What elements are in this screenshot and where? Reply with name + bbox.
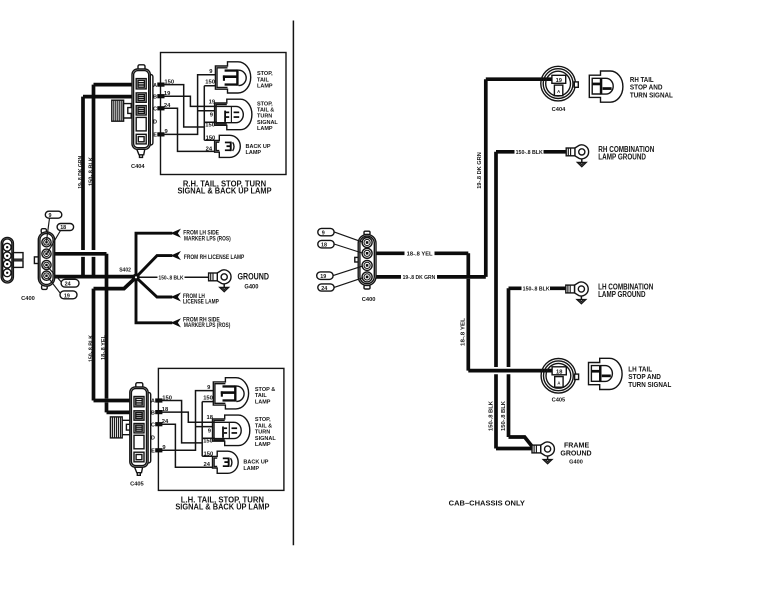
socket connector C405 (circle symbol) (541, 359, 578, 394)
svg-text:TURN SIGNAL: TURN SIGNAL (628, 380, 672, 389)
svg-text:SIGNAL: SIGNAL (257, 120, 278, 126)
svg-text:C400: C400 (21, 296, 35, 302)
svg-text:19-.8 DK GRN: 19-.8 DK GRN (477, 152, 483, 189)
socket connector C404 (circle symbol) (541, 66, 579, 101)
svg-text:B: B (153, 95, 157, 101)
callout oval 18 (right) (334, 244, 362, 253)
wire 18-.8 YEL (C400 pin 2 to C405 socket) (370, 253, 552, 370)
svg-text:150-.8 BLK: 150-.8 BLK (516, 150, 543, 156)
svg-text:C404: C404 (131, 164, 145, 170)
internal wire ckt 9 (161, 75, 216, 135)
stub FROM RH SIDE MARKER LPS (ROS) (136, 277, 172, 323)
svg-text:STOP,: STOP, (257, 101, 273, 107)
svg-text:G400: G400 (244, 284, 259, 290)
svg-text:C405: C405 (130, 482, 144, 488)
svg-text:19: 19 (209, 99, 216, 105)
svg-text:TURN SIGNAL: TURN SIGNAL (630, 91, 674, 100)
connector C405 (5-cavity, rear lamp harness LH) (130, 383, 151, 476)
svg-text:150: 150 (206, 136, 216, 142)
svg-text:CAB–CHASSIS ONLY: CAB–CHASSIS ONLY (449, 499, 525, 508)
wire C404 pin B lead (83, 95, 140, 99)
svg-text:19-.8 DK GRN: 19-.8 DK GRN (403, 275, 436, 281)
svg-text:G400: G400 (569, 459, 583, 465)
callout oval 18 (48, 231, 61, 253)
callout oval 24 (48, 267, 63, 283)
lamp stop/tail/turn (3 terminal) (215, 99, 252, 130)
lamp socket rear view RH (589, 71, 623, 102)
svg-text:24: 24 (65, 282, 71, 288)
svg-text:SIGNAL & BACK UP LAMP: SIGNAL & BACK UP LAMP (175, 503, 270, 512)
wire 150-.8 BLK LH combination ground down to frame ground (509, 288, 567, 447)
svg-text:MARKER LPS (ROS): MARKER LPS (ROS) (184, 236, 231, 242)
svg-text:LAMP: LAMP (246, 150, 262, 156)
svg-text:18: 18 (60, 225, 66, 231)
callout oval 19 (48, 277, 61, 294)
svg-text:150-.8 BLK: 150-.8 BLK (88, 157, 94, 186)
stub FROM RH LICENSE LAMP (136, 256, 172, 278)
lamp box outline (161, 53, 287, 175)
svg-text:C404: C404 (552, 107, 566, 113)
wire C404 pin A lead (94, 83, 140, 87)
svg-text:18-.8 YEL: 18-.8 YEL (407, 251, 434, 257)
stub FROM LH SIDE MARKER LPS (ROS) (136, 233, 172, 277)
lamp socket rear view LH (589, 358, 623, 389)
R.H. lamp box core (shared geometry) (153, 53, 286, 175)
wire 150-.8 BLK RH combination ground down to frame ground (496, 152, 566, 449)
svg-text:LAMP: LAMP (255, 399, 271, 405)
lamp back up (215, 135, 241, 157)
wire 19-.8 DK GRN (C400 pin 4 to C404 socket) (370, 79, 553, 277)
L.H. lamp box core (151, 368, 284, 490)
wire 150 BLK lower run (splice down to C405 pin A) (94, 277, 140, 400)
svg-text:GROUND: GROUND (238, 271, 270, 281)
svg-text:LAMP: LAMP (257, 83, 273, 89)
pin squares A,B,C,E (157, 83, 164, 87)
svg-text:STOP &: STOP & (255, 387, 275, 393)
wire 19-.8 DK GRN vertical (C404 pin B down to C400 pin 4 run) (81, 97, 85, 277)
wire 19 DK GRN horizontal (C400 pin 4 to splice line) (48, 275, 136, 279)
svg-text:TAIL: TAIL (257, 77, 269, 83)
svg-text:19: 19 (320, 274, 326, 280)
internal wire ckt 19/18 (161, 96, 217, 106)
svg-text:150-.8 BLK: 150-.8 BLK (523, 287, 550, 293)
svg-text:D: D (153, 120, 157, 126)
svg-text:TAIL &: TAIL & (257, 108, 274, 114)
svg-text:A: A (153, 83, 157, 89)
wire 150-.8 BLK vertical (C404 pin A down to splice) (92, 85, 96, 277)
ring terminal GROUND G400 (209, 270, 231, 292)
mounting clip beside C404 (112, 100, 131, 121)
ring terminal FRAME GROUND G400 (532, 442, 554, 464)
svg-text:9: 9 (322, 230, 325, 236)
callout oval 19 (right) (333, 266, 362, 275)
svg-text:18: 18 (207, 415, 214, 421)
svg-text:TURN: TURN (257, 114, 272, 120)
svg-text:19-.8 DK GRN: 19-.8 DK GRN (78, 156, 84, 189)
svg-text:18: 18 (556, 369, 563, 375)
connector C404 (5-cavity, rear lamp harness RH) (132, 65, 153, 158)
svg-text:A: A (557, 89, 560, 94)
svg-text:C405: C405 (552, 398, 566, 404)
connector C400 mating half (far left) (1, 237, 23, 283)
splice S402 dot (132, 274, 139, 281)
svg-text:LAMP: LAMP (257, 126, 273, 132)
svg-text:18: 18 (321, 242, 327, 248)
svg-text:150-.8 BLK: 150-.8 BLK (488, 401, 494, 431)
callout oval 9 (47, 218, 50, 241)
svg-text:150-.8 BLK: 150-.8 BLK (501, 401, 507, 431)
svg-text:24: 24 (321, 286, 327, 292)
ring terminal RH COMBINATION LAMP GROUND (566, 145, 588, 167)
svg-text:C: C (153, 107, 157, 113)
svg-text:TAIL: TAIL (255, 393, 267, 399)
svg-text:150: 150 (205, 80, 215, 86)
svg-text:19: 19 (556, 78, 563, 84)
svg-text:LAMP GROUND: LAMP GROUND (598, 290, 646, 299)
svg-text:19: 19 (64, 293, 70, 299)
svg-text:24: 24 (206, 146, 213, 152)
svg-text:BACK UP: BACK UP (246, 144, 271, 150)
svg-text:STOP,: STOP, (257, 71, 273, 77)
svg-text:A: A (557, 380, 560, 385)
svg-text:9: 9 (49, 213, 52, 219)
svg-text:150: 150 (205, 122, 215, 128)
wire 150-.8 BLK to ground G400 (136, 276, 208, 278)
svg-text:150-.8 BLK: 150-.8 BLK (88, 335, 94, 362)
svg-text:150-.8 BLK: 150-.8 BLK (159, 275, 184, 281)
callout oval 9 (right) (334, 232, 363, 242)
svg-text:SIGNAL & BACK UP LAMP: SIGNAL & BACK UP LAMP (177, 187, 272, 196)
svg-text:GROUND: GROUND (560, 449, 592, 458)
svg-text:C400: C400 (362, 297, 376, 303)
connector C400 (right, 4-pin) (355, 231, 376, 289)
svg-text:FROM RH LICENSE LAMP: FROM RH LICENSE LAMP (184, 255, 244, 261)
svg-text:LAMP GROUND: LAMP GROUND (598, 153, 646, 162)
svg-text:18-.8 YEL: 18-.8 YEL (460, 317, 466, 346)
callout oval 24 (right) (334, 278, 363, 288)
wire 18-.8 YEL run (C400 pin 2 right, down to C405 pin B) (48, 254, 140, 413)
svg-text:18: 18 (162, 407, 169, 413)
connector C400 (left, 4-pin) (34, 229, 54, 290)
svg-text:18-.8 YEL: 18-.8 YEL (101, 334, 107, 360)
svg-text:S402: S402 (119, 268, 131, 274)
ring terminal LH COMBINATION LAMP GROUND (566, 282, 588, 304)
lamp stop/tail (2 terminal) (215, 62, 250, 93)
mounting clip beside C405 (110, 417, 129, 438)
internal wire ckt 150 (161, 85, 218, 141)
section divider line (292, 21, 294, 546)
svg-text:LICENSE LAMP: LICENSE LAMP (183, 299, 219, 305)
stub FROM LH LICENSE LAMP (136, 277, 172, 297)
svg-text:E: E (153, 133, 157, 139)
svg-text:19: 19 (164, 91, 171, 97)
internal wire ckt 24 (161, 108, 215, 151)
svg-text:MARKER LPS (ROS): MARKER LPS (ROS) (184, 322, 230, 329)
